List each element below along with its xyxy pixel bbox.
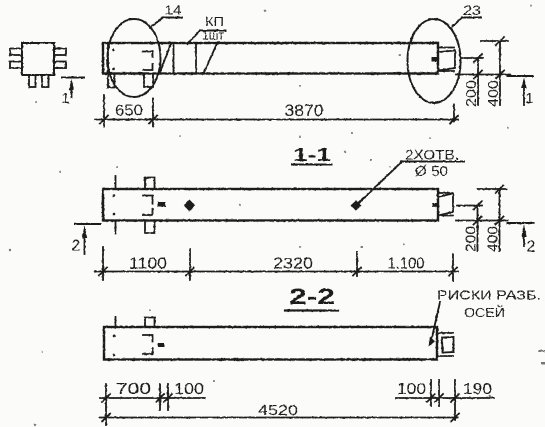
svg-text:3870: 3870 [285, 101, 324, 120]
svg-text:2: 2 [527, 239, 536, 256]
svg-text:Ø 50: Ø 50 [415, 163, 448, 180]
svg-text:200: 200 [463, 226, 480, 252]
svg-text:14: 14 [165, 3, 182, 18]
svg-text:1.100: 1.100 [388, 256, 425, 273]
svg-text:400: 400 [485, 80, 502, 107]
svg-text:РИСКИ РАЗБ.: РИСКИ РАЗБ. [437, 288, 541, 303]
svg-text:700: 700 [116, 381, 151, 398]
svg-text:100: 100 [174, 381, 204, 398]
svg-text:400: 400 [485, 226, 502, 252]
svg-text:4520: 4520 [258, 402, 298, 419]
svg-text:23: 23 [463, 2, 481, 18]
svg-text:1100: 1100 [129, 256, 167, 273]
svg-text:2320: 2320 [273, 256, 313, 273]
svg-text:2-2: 2-2 [289, 284, 335, 309]
svg-text:1шт: 1шт [202, 28, 224, 43]
svg-text:ОСЕЙ: ОСЕЙ [464, 305, 505, 320]
svg-text:190: 190 [463, 381, 492, 398]
svg-text:1: 1 [525, 90, 533, 107]
svg-text:100: 100 [397, 381, 426, 398]
svg-text:1-1: 1-1 [293, 145, 331, 165]
svg-text:650: 650 [115, 103, 143, 120]
svg-text:1: 1 [61, 90, 69, 107]
svg-text:2ХОТВ.: 2ХОТВ. [405, 147, 459, 163]
svg-text:200: 200 [463, 80, 480, 107]
svg-text:2: 2 [72, 238, 81, 255]
